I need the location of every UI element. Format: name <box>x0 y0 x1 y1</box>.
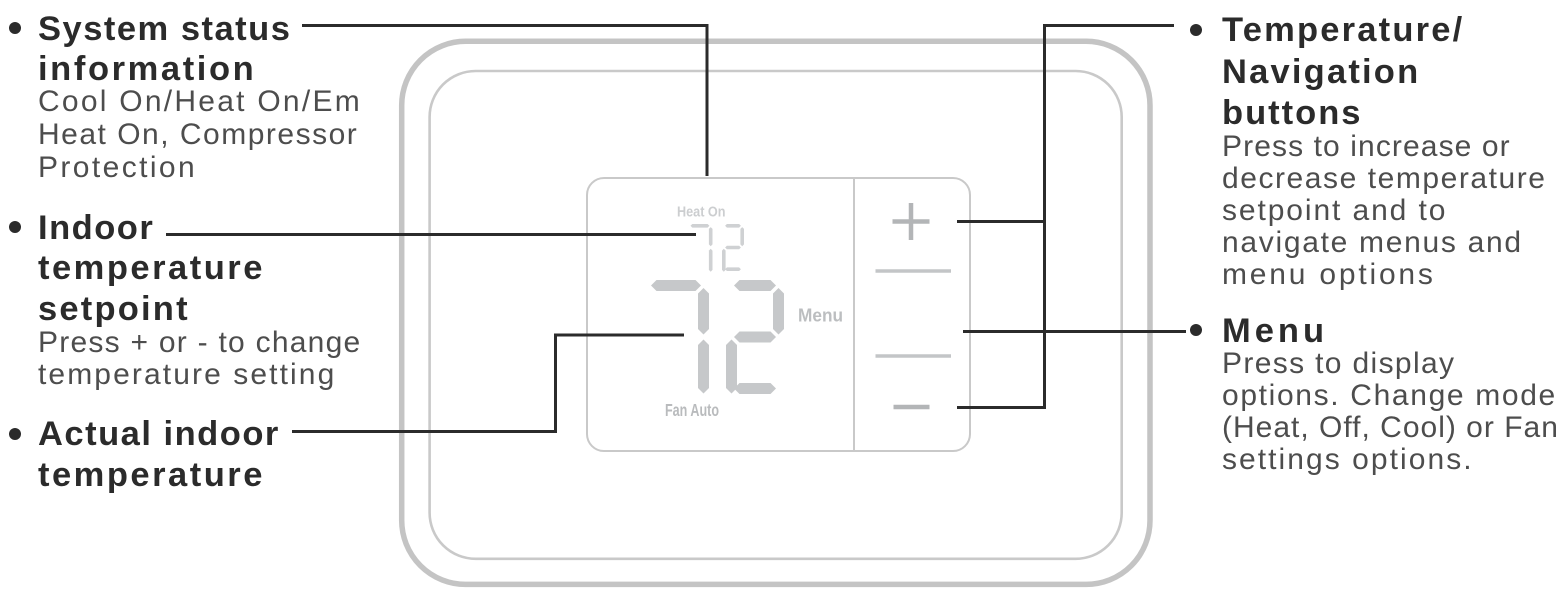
big 7-seg digit 2 (actual temp) <box>726 280 784 394</box>
small 7-seg digit 2 (setpoint) <box>722 224 744 272</box>
display divider <box>853 178 855 451</box>
bullet: system status <box>9 22 21 34</box>
label: system status heading <box>38 9 291 90</box>
label: system status body <box>38 86 362 184</box>
callout wire: system status <box>302 26 707 177</box>
minus button <box>894 405 930 410</box>
button separator lower <box>876 354 952 357</box>
svg-text:Menu: Menu <box>798 306 843 326</box>
callout wire: actual indoor temperature <box>292 335 684 432</box>
bullet: temperature/navigation buttons <box>1190 24 1202 36</box>
callout wire: temperature/navigation buttons <box>957 26 1174 410</box>
label: menu body <box>1222 348 1559 476</box>
label: temperature/navigation heading <box>1222 10 1464 135</box>
small 7-seg digit 7 (setpoint) <box>691 224 713 272</box>
label: menu heading <box>1222 311 1328 352</box>
button separator upper <box>876 269 952 272</box>
callout wire: indoor temperature setpoint <box>166 233 696 236</box>
label: temperature/navigation body <box>1222 131 1547 291</box>
thermostat inner frame <box>430 71 1122 559</box>
svg-text:Heat On: Heat On <box>677 205 726 221</box>
bullet: actual indoor temperature <box>9 428 21 440</box>
thermostat outer frame <box>402 41 1150 584</box>
bullet: indoor temperature setpoint <box>9 221 21 233</box>
plus button <box>893 203 930 240</box>
label: indoor temperature setpoint body <box>38 327 362 391</box>
display bezel <box>587 178 970 451</box>
callout wire: menu <box>963 330 1186 333</box>
label: actual indoor temperature heading <box>38 414 280 495</box>
big 7-seg digit 7 (actual temp) <box>651 280 709 394</box>
label: indoor temperature setpoint heading <box>38 208 265 330</box>
bullet: menu <box>1190 324 1202 336</box>
svg-text:Fan Auto: Fan Auto <box>665 400 719 420</box>
